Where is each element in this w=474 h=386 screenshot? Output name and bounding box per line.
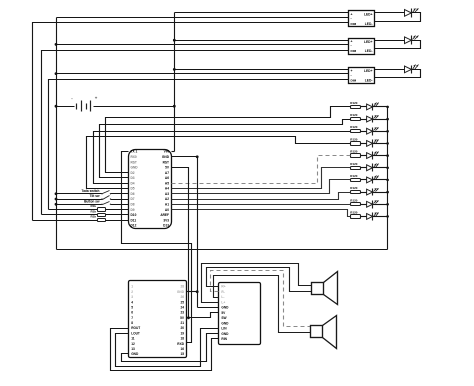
wire Arduino D3 wrap to LED row 2 — [100, 120, 351, 178]
resistor R1k on D10 — [42, 214, 98, 216]
svg-text:D10: D10 — [131, 213, 137, 217]
speaker SP1 — [312, 283, 324, 295]
node + bus / driver3 — [173, 68, 176, 71]
wire driver1 + pin stub — [175, 12, 349, 14]
wire DIM driver 3 loop (vertical x=48.0) — [49, 80, 349, 210]
battery BT1 — [57, 106, 75, 108]
svg-text:Tada switch: Tada switch — [81, 189, 99, 193]
svg-text:GND: GND — [221, 306, 229, 310]
svg-text:SW: SW — [221, 316, 226, 320]
wire amp L+ to speaker — [202, 264, 312, 303]
resistor R5 120ohm — [351, 154, 361, 158]
svg-text:21: 21 — [180, 321, 184, 325]
LED driver module U3 box — [349, 39, 375, 55]
svg-text:DIM: DIM — [351, 22, 357, 26]
resistor R4 120ohm — [351, 142, 361, 146]
svg-text:LED+: LED+ — [364, 40, 373, 44]
svg-text:A5: A5 — [165, 181, 169, 185]
svg-text:7: 7 — [131, 316, 133, 320]
svg-text:DIM: DIM — [351, 78, 357, 82]
resistor R8 120ohm — [351, 191, 361, 194]
svg-text:D13: D13 — [163, 224, 169, 228]
wire LED D3 cathode return to LED- driver 3 — [375, 70, 421, 78]
LED D2 (driver 2 output) — [405, 37, 412, 44]
svg-text:LED+: LED+ — [364, 13, 373, 17]
node - bus / driver2 — [55, 43, 58, 46]
svg-text:A6: A6 — [165, 176, 169, 180]
svg-text:R120: R120 — [350, 113, 358, 117]
wire DIM driver 1 loop (vertical x=32.0) — [33, 23, 349, 221]
node - bus / driver3 — [55, 72, 58, 75]
wire LED D2 cathode return to LED- driver 2 — [375, 41, 421, 49]
svg-text:L+: L+ — [221, 300, 225, 304]
svg-text:A0: A0 — [165, 208, 169, 212]
svg-text:23: 23 — [180, 311, 184, 315]
wire LED L10 cathode to return bus — [373, 216, 388, 218]
wire Arduino VIN to + bus — [172, 151, 175, 153]
svg-text:-: - — [351, 73, 352, 77]
svg-text:R120: R120 — [350, 210, 358, 214]
wire driver3 + pin branch — [175, 69, 349, 71]
LED L1 — [361, 106, 367, 108]
svg-text:1: 1 — [131, 285, 133, 289]
wire LED+ driver 2 to LED D2 — [375, 40, 405, 42]
node cathode bus row 2 — [386, 118, 389, 121]
LED L3 — [361, 131, 367, 133]
svg-text:R120: R120 — [350, 198, 358, 202]
node cathode bus row 5 — [386, 154, 389, 157]
node + bus / driver2 — [173, 39, 176, 42]
wire Arduino A4 to LED row 6 — [172, 168, 351, 189]
LED L2 — [361, 119, 367, 121]
wire LED+ driver 3 to LED D3 — [375, 69, 405, 71]
resistor R3 120ohm — [351, 130, 361, 133]
svg-text:D3: D3 — [131, 176, 135, 180]
svg-text:13: 13 — [131, 347, 135, 351]
resistor R1 120ohm — [351, 106, 361, 109]
svg-text:4: 4 — [131, 300, 133, 304]
svg-text:R120: R120 — [350, 174, 358, 178]
svg-text:A4: A4 — [165, 187, 169, 191]
svg-text:DIM: DIM — [351, 49, 357, 53]
svg-text:D5: D5 — [131, 187, 135, 191]
wire LED L2 cathode to return bus — [373, 119, 388, 121]
LED driver module U2 box — [349, 11, 375, 27]
svg-text:A1: A1 — [165, 203, 169, 207]
wire battery + to bus — [94, 106, 175, 108]
node cathode bus row 3 — [386, 130, 389, 133]
switch S3 (Button sw) to D8 — [57, 204, 103, 206]
node cathode bus row 6 — [386, 166, 389, 169]
svg-text:18: 18 — [180, 337, 184, 341]
svg-text:R-: R- — [221, 290, 224, 294]
wire LED L1 cathode to return bus — [373, 106, 388, 108]
resistor R7 120ohm — [351, 179, 361, 182]
svg-text:R1k: R1k — [90, 204, 96, 208]
resistor R6 120ohm — [351, 167, 361, 170]
svg-text:RST: RST — [131, 160, 137, 164]
svg-text:ROUT: ROUT — [131, 326, 140, 330]
wire LED return bottom to - bus — [57, 249, 388, 251]
svg-text:LED-: LED- — [365, 78, 373, 82]
svg-text:D4: D4 — [131, 181, 135, 185]
wire driver1 - pin — [57, 17, 349, 19]
svg-text:LED-: LED- — [365, 22, 373, 26]
svg-text:GND: GND — [131, 352, 139, 356]
svg-text:3V3: 3V3 — [163, 218, 169, 222]
svg-text:5: 5 — [131, 305, 133, 309]
svg-text:16: 16 — [180, 347, 184, 351]
svg-text:+: + — [95, 95, 98, 100]
svg-text:R120: R120 — [350, 137, 358, 141]
wire Arduino D4 wrap to LED row 3 — [94, 132, 351, 184]
svg-text:12: 12 — [131, 342, 135, 346]
wire driver2 - pin — [57, 44, 349, 46]
wire Arduino 5V down (x=189) — [172, 168, 189, 318]
wire LED L9 cathode to return bus — [373, 204, 388, 206]
audio amplifier U4 body — [219, 283, 261, 345]
node 5V junction — [187, 316, 190, 319]
svg-text:D9: D9 — [131, 208, 135, 212]
node cathode bus row 10 — [386, 215, 389, 218]
svg-text:GND: GND — [221, 332, 229, 336]
svg-text:28: 28 — [180, 285, 184, 289]
LED D1 (driver 1 output) — [405, 10, 412, 17]
LED D3 (driver 3 output) — [405, 66, 412, 73]
wire amp R- to speaker — [211, 271, 311, 327]
LED L8 — [361, 192, 367, 194]
svg-text:-: - — [351, 16, 352, 20]
LED L7 — [361, 179, 367, 181]
wire MP3 LOUT loop to amp LIN — [116, 329, 219, 367]
wire GND vertical to amp GND — [198, 307, 219, 309]
svg-text:R120: R120 — [350, 162, 358, 166]
node cathode bus row 1 — [386, 106, 389, 109]
svg-text:20: 20 — [180, 326, 184, 330]
svg-text:R120: R120 — [350, 101, 358, 105]
wire Arduino A5 to LED row 5 — [172, 156, 351, 184]
svg-text:GND: GND — [177, 290, 185, 294]
LED L5 — [361, 155, 367, 157]
svg-text:D8: D8 — [131, 203, 135, 207]
wire LED L3 cathode to return bus — [373, 131, 388, 133]
wire amp L- to speaker — [214, 276, 311, 333]
wire Arduino A2 to LED row 8 — [172, 193, 351, 200]
svg-text:RST: RST — [163, 160, 169, 164]
svg-text:TX 1: TX 1 — [131, 150, 138, 154]
resistor R9 120ohm — [351, 203, 361, 206]
wire MP3 5V to 5V vertical — [187, 317, 189, 319]
wire MP3 GND(14) loop to amp GND(10) — [122, 334, 219, 362]
svg-text:A3: A3 — [165, 192, 169, 196]
svg-text:26: 26 — [180, 295, 184, 299]
wire - bus vertical (battery - / driver - pins / switches / LED return) — [56, 18, 58, 250]
svg-text:RX0: RX0 — [131, 155, 137, 159]
svg-text:15: 15 — [180, 352, 184, 356]
svg-text:R+: R+ — [221, 285, 225, 289]
svg-text:GND: GND — [162, 155, 170, 159]
LED driver module U4 box — [349, 68, 375, 84]
wire Arduino A1 to LED row 9 — [172, 204, 351, 206]
LED L4 — [361, 143, 367, 145]
wire amp R+ to speaker — [207, 268, 312, 292]
svg-text:R120: R120 — [350, 125, 358, 129]
wire DIM driver 2 loop (vertical x=41.0) — [42, 51, 349, 215]
svg-text:R120: R120 — [350, 186, 358, 190]
wire driver3 - pin — [57, 73, 349, 75]
wire MP3 GND(2) to GND vertical — [187, 291, 198, 293]
wire LED L4 cathode to return bus — [373, 143, 388, 145]
wire LED+ driver 1 to LED D1 — [375, 12, 405, 14]
switch S1 (Tada switch) to D6 — [57, 193, 103, 195]
speaker SP2 — [311, 326, 323, 338]
wire Arduino A0 to LED row 10 — [172, 210, 351, 217]
svg-text:2: 2 — [131, 290, 133, 294]
svg-text:A2: A2 — [165, 197, 169, 201]
svg-text:LIN: LIN — [221, 327, 227, 331]
svg-text:Tilt sw: Tilt sw — [90, 194, 100, 198]
svg-text:11: 11 — [131, 337, 135, 341]
node cathode bus row 4 — [386, 142, 389, 145]
node cathode bus row 8 — [386, 191, 389, 194]
svg-text:AREF: AREF — [160, 213, 169, 217]
wire LED L5 cathode to return bus — [373, 155, 388, 157]
svg-text:24: 24 — [180, 305, 184, 309]
wire Arduino D5 wrap to LED row 4 — [87, 137, 351, 189]
wire LED cathode return bus vertical — [387, 107, 389, 250]
node cathode bus row 7 — [386, 179, 389, 182]
resistor R10 120ohm — [351, 215, 361, 219]
svg-text:LED-: LED- — [365, 49, 373, 53]
wire +12V bus vertical (battery + / VIN / driver + pins) — [174, 13, 176, 152]
svg-text:D6: D6 — [131, 192, 135, 196]
svg-text:8: 8 — [131, 321, 133, 325]
svg-text:3: 3 — [131, 295, 133, 299]
svg-text:GND: GND — [131, 166, 139, 170]
wire 5V branch to amp 5V — [189, 313, 219, 318]
wire Arduino GND down (x=197) — [172, 157, 198, 308]
LED L6 — [361, 167, 367, 169]
svg-text:R1k: R1k — [90, 209, 96, 213]
svg-text:D7: D7 — [131, 197, 135, 201]
switch S2 (Tilt sw) to D7 — [57, 199, 103, 201]
svg-text:A7: A7 — [165, 171, 169, 175]
svg-text:D2: D2 — [131, 171, 135, 175]
resistor R1k on D11 — [33, 220, 98, 222]
wire LED L8 cathode to return bus — [373, 192, 388, 194]
LED L10 — [361, 216, 367, 218]
svg-text:VIN: VIN — [164, 150, 170, 154]
svg-text:LED+: LED+ — [364, 69, 373, 73]
svg-text:GND: GND — [221, 321, 229, 325]
svg-text:LOUT: LOUT — [131, 331, 140, 335]
svg-text:L-: L- — [221, 295, 224, 299]
svg-text:D12: D12 — [131, 224, 137, 228]
svg-text:R1k: R1k — [90, 215, 96, 219]
svg-text:D11: D11 — [131, 218, 137, 222]
resistor R2 120ohm — [351, 118, 361, 121]
svg-text:25: 25 — [180, 300, 184, 304]
svg-text:R120: R120 — [350, 150, 358, 154]
svg-text:RXD: RXD — [177, 342, 184, 346]
svg-text:6: 6 — [131, 311, 133, 315]
svg-text:Button sw: Button sw — [84, 200, 100, 204]
wire LED D1 cathode return to LED- driver 1 — [375, 13, 421, 22]
svg-text:RIN: RIN — [221, 337, 227, 341]
resistor R1k on D9 — [49, 209, 98, 211]
wire LED L6 cathode to return bus — [373, 167, 388, 169]
wire Arduino A3 to LED row 7 — [172, 180, 351, 194]
MP3 sound module U3 body — [129, 281, 187, 358]
wire driver2 + pin branch — [175, 40, 349, 42]
node cathode bus row 9 — [386, 203, 389, 206]
svg-text:-: - — [351, 44, 352, 48]
wire MP3 ROUT loop to amp RIN — [111, 329, 219, 371]
LED L9 — [361, 204, 367, 206]
Arduino Nano U1 body — [129, 150, 172, 229]
svg-text:19: 19 — [180, 331, 184, 335]
wire Arduino D2 wrap to LED row 1 — [106, 107, 351, 173]
wire Arduino TX1 to MP3 RXD — [122, 152, 192, 343]
wire LED L7 cathode to return bus — [373, 179, 388, 181]
